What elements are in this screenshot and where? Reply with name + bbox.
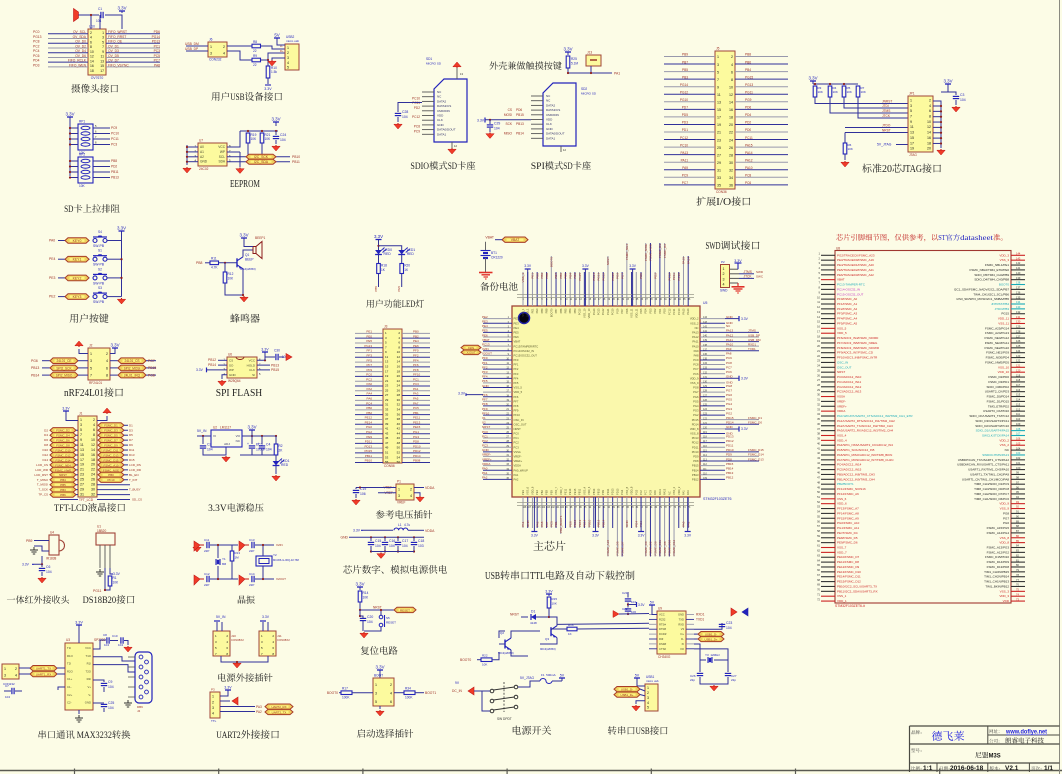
svg-text:22P: 22P — [204, 549, 209, 553]
svg-text:R18: R18 — [381, 264, 387, 268]
svg-text:RESET: RESET — [400, 608, 410, 612]
svg-text:C2: C2 — [207, 443, 211, 447]
svg-text:PB0: PB0 — [108, 473, 114, 477]
svg-text:I2C1_SDA/FSMC_NADV/I2C1_SDA/PB: I2C1_SDA/FSMC_NADV/I2C1_SDA/PB7 — [954, 287, 1009, 291]
svg-text:CON232: CON232 — [209, 58, 222, 62]
svg-text:I2C_SCK: I2C_SCK — [254, 155, 269, 159]
svg-text:104: 104 — [96, 19, 102, 23]
svg-text:PD11: PD11 — [726, 444, 734, 448]
svg-text:26: 26 — [729, 146, 733, 150]
title user usb — [211, 92, 219, 100]
svg-text:PD6: PD6 — [154, 30, 161, 34]
svg-text:51: 51 — [385, 451, 389, 455]
svg-text:PE3: PE3 — [49, 276, 56, 280]
svg-text:CS: CS — [229, 359, 233, 363]
svg-text:U3: U3 — [66, 638, 70, 642]
svg-text:FSMC_NOE/PD4: FSMC_NOE/PD4 — [986, 356, 1010, 360]
svg-text:PA7: PA7 — [545, 521, 549, 527]
svg-text:104: 104 — [108, 685, 114, 689]
svg-text:15: 15 — [717, 108, 721, 112]
SD socket SD1 SDIO — [434, 79, 467, 142]
svg-text:JTMS: JTMS — [744, 270, 752, 274]
svg-text:OV_D3: OV_D3 — [108, 49, 119, 53]
svg-text:PC1: PC1 — [413, 377, 419, 381]
svg-text:FSMC_D3: FSMC_D3 — [104, 429, 118, 433]
svg-text:FSMC_NWE/PD5: FSMC_NWE/PD5 — [985, 360, 1009, 364]
crystal Y2 — [256, 556, 272, 566]
svg-text:10: 10 — [729, 85, 733, 89]
svg-text:PB9: PB9 — [26, 539, 33, 543]
svg-text:FSMC_D14/PD9: FSMC_D14/PD9 — [987, 560, 1010, 564]
svg-text:FSMC_D11: FSMC_D11 — [104, 448, 119, 452]
svg-text:PD3: PD3 — [648, 308, 652, 314]
connector J1 TFT_LCD — [78, 416, 97, 497]
svg-text:SWD: SWD — [756, 270, 764, 274]
svg-text:16: 16 — [90, 64, 94, 68]
svg-text:128: 128 — [703, 390, 708, 393]
svg-text:110: 110 — [703, 472, 707, 475]
svg-text:PA0: PA0 — [482, 467, 488, 471]
svg-text:VBAT: VBAT — [837, 278, 845, 282]
svg-text:PE2: PE2 — [514, 317, 520, 321]
svg-text:17: 17 — [385, 369, 389, 373]
svg-text:R11: R11 — [211, 257, 217, 261]
micro usb USB1 — [645, 684, 658, 711]
svg-text:D-: D- — [681, 637, 684, 641]
svg-text:PA14: PA14 — [686, 257, 690, 264]
svg-text:135: 135 — [1016, 295, 1021, 299]
svg-text:L1: L1 — [398, 523, 402, 527]
svg-text:PE13/FSMC_D10: PE13/FSMC_D10 — [837, 570, 861, 574]
svg-text:140: 140 — [1016, 271, 1021, 275]
svg-text:PA1: PA1 — [413, 387, 419, 391]
svg-text:22: 22 — [253, 49, 257, 53]
svg-text:13: 13 — [80, 448, 84, 452]
svg-text:FSMC_NE4/PG12: FSMC_NE4/PG12 — [984, 336, 1009, 340]
svg-text:PC7: PC7 — [726, 365, 732, 369]
svg-text:VDD_11: VDD_11 — [634, 308, 638, 318]
svg-text:1K: 1K — [568, 632, 572, 636]
svg-text:SPI2_SCK: SPI2_SCK — [56, 366, 72, 370]
svg-text:FSMC_NWE: FSMC_NWE — [644, 244, 648, 261]
transistor Q2 — [504, 640, 506, 649]
svg-text:PG14: PG14 — [680, 83, 688, 87]
svg-text:VDDA: VDDA — [837, 409, 845, 413]
spi flash gnd — [222, 375, 227, 379]
svg-text:PC8: PC8 — [414, 125, 420, 129]
svg-text:VREF-: VREF- — [837, 399, 846, 403]
svg-text:PC0: PC0 — [482, 430, 488, 434]
svg-text:35: 35 — [717, 184, 721, 188]
svg-text:10K: 10K — [113, 581, 120, 585]
svg-text:R17: R17 — [342, 687, 348, 691]
svg-text:VSS_4: VSS_4 — [582, 486, 586, 495]
chip bottom numbers strip — [517, 502, 694, 504]
svg-text:PB13: PB13 — [592, 488, 596, 495]
svg-text:11: 11 — [80, 443, 84, 447]
svg-text:PG11: PG11 — [93, 589, 102, 593]
svg-text:A0: A0 — [200, 145, 204, 149]
svg-text:PD2: PD2 — [111, 165, 117, 169]
svg-text:19: 19 — [717, 123, 721, 127]
svg-text:BOOT0: BOOT0 — [550, 257, 554, 268]
svg-text:PB3: PB3 — [60, 488, 66, 492]
svg-text:U8: U8 — [836, 247, 840, 251]
svg-text:SCK: SCK — [505, 122, 512, 126]
regulator U2 1117 box — [211, 430, 242, 447]
LED1 power — [275, 455, 277, 461]
svg-text:PC9: PC9 — [648, 489, 652, 495]
power 3.3V camera — [121, 11, 123, 13]
svg-text:116: 116 — [1016, 388, 1021, 392]
chip left pins wires labels — [483, 318, 512, 320]
svg-text:FSMC_D5: FSMC_D5 — [616, 541, 620, 555]
svg-text:PD6: PD6 — [745, 106, 751, 110]
svg-text:3.3V: 3.3V — [582, 264, 590, 268]
svg-text:C24: C24 — [280, 133, 286, 137]
svg-text:PB1/ADC12_IN9/TIM3_CH4: PB1/ADC12_IN9/TIM3_CH4 — [837, 477, 875, 481]
svg-text:27: 27 — [80, 483, 84, 487]
svg-text:3.3V: 3.3V — [62, 407, 70, 411]
ref vdda — [414, 487, 424, 489]
svg-text:139: 139 — [703, 339, 708, 342]
svg-text:PD4: PD4 — [644, 308, 648, 314]
svg-text:22: 22 — [91, 468, 95, 472]
svg-text:PF8: PF8 — [482, 402, 488, 406]
svg-text:PF7: PF7 — [514, 399, 519, 403]
svg-text:9013(s8050): 9013(s8050) — [540, 647, 556, 651]
svg-text:T_BUSY: T_BUSY — [129, 488, 141, 492]
svg-text:PC0/ADC12_IN10: PC0/ADC12_IN10 — [837, 375, 862, 379]
svg-text:USB: USB — [485, 571, 500, 582]
svg-text:PD9: PD9 — [601, 489, 605, 495]
svg-text:109: 109 — [703, 477, 708, 480]
svg-text:PG6: PG6 — [726, 393, 732, 397]
chip bottom pin bundle — [522, 497, 524, 528]
svg-text:118: 118 — [1016, 378, 1021, 382]
svg-text:4: 4 — [929, 104, 931, 108]
svg-text:FSMC_D3: FSMC_D3 — [658, 244, 662, 258]
svg-text:PG7: PG7 — [148, 359, 155, 363]
usb1 5V — [636, 678, 638, 680]
svg-text:FSMC_D1: FSMC_D1 — [104, 424, 118, 428]
svg-text:SWD: SWD — [720, 289, 728, 293]
svg-text:JTDO: JTDO — [882, 124, 891, 128]
svg-text:RTS#: RTS# — [659, 622, 666, 626]
svg-text:19: 19 — [385, 374, 389, 378]
svg-text:31: 31 — [80, 492, 84, 496]
svg-text:S1: S1 — [98, 249, 102, 253]
jtag wires nets — [815, 97, 908, 104]
power 3.3V touch — [567, 52, 569, 55]
svg-text:16: 16 — [397, 364, 401, 368]
svg-text:R22: R22 — [482, 654, 488, 658]
svg-text:FIFO_VSYNC: FIFO_VSYNC — [108, 63, 129, 67]
svg-text:C11: C11 — [204, 538, 210, 542]
svg-text:D15: D15 — [129, 458, 135, 462]
uart2 nets — [220, 706, 255, 708]
svg-text:S2: S2 — [98, 267, 102, 271]
svg-text:C9: C9 — [108, 680, 112, 684]
svg-text:PB14: PB14 — [516, 132, 524, 136]
svg-text:PC5: PC5 — [154, 54, 161, 58]
connector SWD 4pin — [721, 265, 730, 288]
svg-text:VSS_11: VSS_11 — [998, 321, 1009, 325]
IR receiver U4 — [49, 535, 59, 555]
svg-text:U2: U2 — [213, 426, 217, 430]
svg-text:GND: GND — [85, 701, 91, 705]
net label VBAT — [502, 237, 528, 242]
svg-text:3.3V: 3.3V — [375, 665, 384, 670]
svg-text:PG3: PG3 — [620, 489, 624, 495]
svg-text:PD2: PD2 — [653, 273, 657, 279]
svg-text:PD6: PD6 — [516, 108, 522, 112]
svg-text::: : — [999, 766, 1001, 771]
svg-text:T2I: T2I — [67, 662, 71, 666]
svg-text:PD10: PD10 — [413, 444, 421, 448]
svg-text:C23: C23 — [726, 621, 732, 625]
svg-text:PA9: PA9 — [694, 349, 699, 353]
switch to fuse — [518, 681, 540, 687]
svg-text:122: 122 — [703, 417, 708, 420]
svg-text:6: 6 — [90, 40, 92, 44]
svg-text:PG9: PG9 — [745, 98, 752, 102]
svg-text:DATA1: DATA1 — [546, 136, 556, 140]
svg-text:PF4: PF4 — [482, 375, 488, 379]
svg-text:1: 1 — [375, 683, 377, 687]
svg-text:VDD_8: VDD_8 — [630, 486, 634, 495]
svg-text:J3: J3 — [384, 325, 388, 329]
svg-text:PD1: PD1 — [682, 128, 688, 132]
svg-text:PA13: PA13 — [692, 330, 699, 334]
svg-text:PB4: PB4 — [568, 273, 572, 279]
svg-text:PE13: PE13 — [568, 488, 572, 495]
svg-text:FSMC_D9: FSMC_D9 — [104, 444, 118, 448]
svg-text:PG15: PG15 — [578, 308, 582, 315]
svg-text:R1O: R1O — [67, 654, 74, 658]
svg-text:PE3/TRACED0/FSMC_A19: PE3/TRACED0/FSMC_A19 — [837, 258, 874, 262]
svg-text:21: 21 — [385, 379, 389, 383]
svg-text:PC8: PC8 — [745, 174, 751, 178]
tft power gnd — [65, 411, 67, 414]
svg-text:20: 20 — [882, 164, 892, 175]
svg-text:R16: R16 — [568, 623, 574, 627]
svg-text:PF6: PF6 — [514, 395, 519, 399]
svg-text:2: 2 — [929, 98, 931, 102]
pin table rows — [821, 254, 835, 256]
svg-text:PG12: PG12 — [601, 308, 605, 315]
svg-text:JNRST: JNRST — [882, 100, 892, 104]
svg-text:XI: XI — [681, 642, 684, 646]
svg-text:PB8: PB8 — [196, 261, 203, 265]
svg-text:VDD_11: VDD_11 — [998, 317, 1009, 321]
capacitor C30 — [264, 356, 266, 358]
svg-text:10: 10 — [91, 438, 95, 442]
svg-text:PC6: PC6 — [33, 54, 40, 58]
resistor R3 — [814, 83, 816, 85]
connector USB2 micro usb — [285, 44, 299, 70]
svg-text:PF2: PF2 — [413, 354, 419, 358]
svg-text:PG3: PG3 — [726, 407, 732, 411]
svg-text:10K: 10K — [847, 90, 852, 94]
svg-text:PA11: PA11 — [692, 340, 699, 344]
svg-text:24L01_CE: 24L01_CE — [56, 359, 71, 363]
svg-text:PG13: PG13 — [745, 83, 753, 87]
svg-text:BOOT0: BOOT0 — [327, 691, 338, 695]
svg-text:PD7: PD7 — [682, 106, 688, 110]
svg-text:MICRO SD: MICRO SD — [426, 62, 442, 66]
resistor R9 — [252, 58, 261, 62]
svg-text:VDD_7: VDD_7 — [559, 486, 563, 495]
max gnd bottom — [78, 710, 80, 714]
svg-text:PA0: PA0 — [682, 521, 686, 527]
jtag right rail — [947, 84, 949, 87]
svg-text:PB11: PB11 — [292, 160, 300, 164]
svg-text:W25Q64: W25Q64 — [228, 379, 241, 383]
svg-text:5: 5 — [717, 70, 719, 74]
svg-text:SW DPDT: SW DPDT — [497, 717, 512, 721]
svg-text:V2.1: V2.1 — [1005, 765, 1019, 772]
svg-text:FSMC_D14: FSMC_D14 — [55, 458, 70, 462]
svg-text:PB8: PB8 — [545, 308, 549, 313]
connector J3 CON56 — [383, 329, 402, 463]
svg-text:4: 4 — [723, 282, 725, 286]
svg-text:PC0: PC0 — [33, 30, 40, 34]
svg-text:PD6: PD6 — [625, 308, 629, 314]
svg-text:PA10: PA10 — [745, 166, 753, 170]
svg-text:100: 100 — [1016, 466, 1021, 470]
title block brand — [911, 730, 915, 734]
svg-text:PD2: PD2 — [414, 106, 420, 110]
svg-text:PB3: PB3 — [573, 308, 577, 313]
svg-text:CMD/DIN: CMD/DIN — [437, 109, 450, 113]
svg-text:PB15: PB15 — [597, 488, 601, 495]
svg-text:CLK: CLK — [546, 122, 552, 126]
svg-text:15: 15 — [80, 453, 84, 457]
svg-text:DATA1: DATA1 — [437, 132, 447, 136]
svg-text:114: 114 — [1016, 398, 1021, 402]
svg-text:UART2: UART2 — [216, 730, 241, 741]
svg-text:FSMC_D7: FSMC_D7 — [620, 541, 624, 555]
svg-text:VSS_4: VSS_4 — [837, 433, 847, 437]
max3232 top caps — [93, 640, 106, 649]
led power 3.3V — [378, 240, 380, 244]
svg-text:VREF-: VREF- — [514, 455, 522, 459]
power pins gnd — [221, 656, 268, 662]
svg-text:PG7: PG7 — [693, 390, 699, 394]
svg-text:D10: D10 — [42, 448, 48, 452]
svg-text:C28: C28 — [402, 110, 408, 114]
svg-text:PA2: PA2 — [482, 476, 488, 480]
svg-text:datasheet: datasheet — [960, 233, 993, 242]
svg-text:VDD_7: VDD_7 — [837, 550, 847, 554]
svg-text:PB7: PB7 — [554, 273, 558, 279]
sdio bottom gnd — [451, 142, 453, 148]
power 5V usb — [276, 38, 278, 42]
svg-text:2: 2 — [212, 700, 214, 704]
svg-text:SD1: SD1 — [426, 57, 432, 61]
svg-text:PG6: PG6 — [31, 359, 38, 363]
svg-text:C17: C17 — [402, 539, 408, 543]
svg-text:104: 104 — [402, 544, 408, 548]
svg-text:FSMC_D12: FSMC_D12 — [672, 539, 676, 555]
svg-text:OV_SCL: OV_SCL — [73, 30, 86, 34]
svg-text:125: 125 — [1016, 344, 1021, 348]
svg-text:PG9: PG9 — [616, 273, 620, 279]
svg-text:VDD: VDD — [546, 118, 553, 122]
svg-text:PC10: PC10 — [677, 308, 681, 315]
svg-text:9: 9 — [80, 438, 82, 442]
svg-text:133: 133 — [1016, 305, 1021, 309]
svg-text:PB9: PB9 — [540, 308, 544, 313]
svg-text:1: 1 — [398, 487, 400, 491]
svg-text:PG6: PG6 — [693, 395, 699, 399]
svg-text:PB2: PB2 — [413, 334, 419, 338]
svg-text:10: 10 — [927, 120, 931, 124]
svg-text:1: 1 — [910, 98, 912, 102]
svg-text:PD15: PD15 — [615, 488, 619, 495]
svg-text:1: 1 — [4, 667, 6, 671]
svg-text:PA7/SPI1_MOSI/ADC12_IN7/TIM8_C: PA7/SPI1_MOSI/ADC12_IN7/TIM8_CH1N — [837, 458, 893, 462]
svg-text:+: + — [258, 442, 260, 446]
svg-text:PC7: PC7 — [644, 489, 648, 495]
svg-text:PD9: PD9 — [726, 453, 732, 457]
svg-text:A2: A2 — [200, 155, 204, 159]
svg-text:138: 138 — [703, 344, 708, 347]
resistor network RP1 — [69, 121, 71, 176]
svg-text:PF12/FSMC_A6: PF12/FSMC_A6 — [837, 492, 859, 496]
svg-text:OSC_IN: OSC_IN — [514, 418, 524, 422]
svg-text:SCL: SCL — [219, 155, 225, 159]
title power pins — [218, 673, 226, 681]
svg-text:118: 118 — [703, 436, 707, 439]
svg-text:T_SCK: T_SCK — [38, 488, 48, 492]
svg-text:R14: R14 — [363, 591, 369, 595]
svg-text:PF9/ADC3_IN7/FSMC_CD: PF9/ADC3_IN7/FSMC_CD — [837, 351, 874, 355]
svg-text:PG3: PG3 — [693, 409, 699, 413]
svg-text:PA5: PA5 — [540, 521, 544, 527]
svg-text:PB0/ADC12_IN8/TIM3_CH3: PB0/ADC12_IN8/TIM3_CH3 — [837, 472, 875, 476]
svg-text:PF6: PF6 — [413, 363, 419, 367]
resistor R2 — [275, 436, 277, 444]
svg-text:X2OUT: X2OUT — [276, 577, 286, 581]
svg-text:PG13: PG13 — [364, 344, 372, 348]
svg-text:PF7/ADC3_IN5/FSMC_NREG: PF7/ADC3_IN5/FSMC_NREG — [837, 341, 878, 345]
capacitor C16 — [384, 536, 386, 538]
svg-text:Q1: Q1 — [245, 253, 249, 257]
svg-text:SW-PB: SW-PB — [93, 263, 105, 267]
svg-text:PE1: PE1 — [530, 308, 534, 313]
svg-text:MOSI: MOSI — [504, 113, 512, 117]
svg-text:PB14: PB14 — [726, 467, 734, 471]
svg-text:LED: LED — [402, 299, 416, 309]
svg-text:PF9: PF9 — [482, 407, 488, 411]
svg-text:PG7: PG7 — [1003, 516, 1009, 520]
svg-text:PD10: PD10 — [692, 450, 699, 454]
svg-text:FSMC_D7: FSMC_D7 — [104, 439, 118, 443]
svg-text:1: 1 — [647, 686, 649, 690]
svg-text:PA9: PA9 — [682, 166, 688, 170]
svg-text:FSMC_D8: FSMC_D8 — [56, 444, 70, 448]
svg-text:PG15: PG15 — [1001, 312, 1009, 316]
svg-text:VSS_8: VSS_8 — [625, 486, 629, 495]
svg-text:143: 143 — [703, 321, 708, 324]
svg-text:EEPROM: EEPROM — [230, 179, 260, 190]
svg-text:NRST: NRST — [606, 257, 610, 265]
svg-text:J4: J4 — [137, 709, 141, 713]
svg-text:PA15: PA15 — [681, 308, 685, 315]
svg-text:PE8/FSMC_D5: PE8/FSMC_D5 — [837, 536, 858, 540]
